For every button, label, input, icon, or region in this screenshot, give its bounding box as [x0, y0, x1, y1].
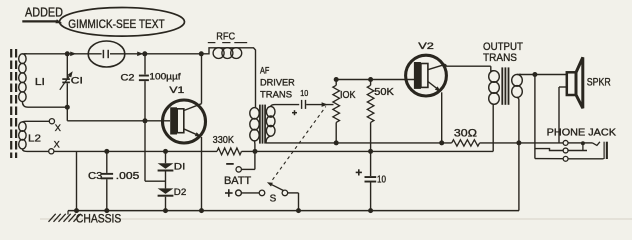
svg-text:PHONE JACK: PHONE JACK: [547, 128, 617, 139]
svg-text:SPKR: SPKR: [587, 77, 611, 89]
svg-text:TRANS: TRANS: [260, 90, 292, 100]
svg-text:10: 10: [377, 175, 387, 186]
svg-text:V1: V1: [169, 85, 184, 95]
svg-text:RFC: RFC: [216, 31, 235, 42]
svg-text:LI: LI: [35, 77, 45, 88]
svg-text:BATT: BATT: [224, 175, 251, 187]
svg-text:100µµf: 100µµf: [149, 72, 181, 82]
svg-text:GIMMICK-SEE TEXT: GIMMICK-SEE TEXT: [68, 18, 164, 31]
svg-text:X: X: [54, 140, 60, 150]
svg-text:CI: CI: [71, 75, 83, 85]
svg-text:V2: V2: [418, 41, 434, 51]
svg-text:DI: DI: [174, 161, 186, 172]
svg-text:X: X: [55, 123, 61, 133]
svg-text:CHASSIS: CHASSIS: [76, 212, 121, 225]
svg-text:D2: D2: [174, 187, 187, 198]
svg-text:330K: 330K: [213, 135, 235, 146]
svg-text:C3: C3: [88, 171, 103, 182]
svg-text:50K: 50K: [374, 87, 394, 98]
svg-text:C2: C2: [121, 72, 135, 82]
svg-text:S: S: [270, 194, 277, 205]
svg-text:IOK: IOK: [340, 90, 356, 101]
svg-text:ADDED: ADDED: [25, 6, 63, 20]
svg-text:.005: .005: [116, 171, 140, 182]
svg-text:AF: AF: [260, 66, 270, 76]
svg-text:30Ω: 30Ω: [454, 128, 477, 140]
svg-text:10: 10: [300, 89, 308, 98]
svg-text:L2: L2: [28, 132, 41, 144]
svg-text:TRANS: TRANS: [483, 52, 517, 64]
svg-text:DRIVER: DRIVER: [260, 78, 295, 88]
